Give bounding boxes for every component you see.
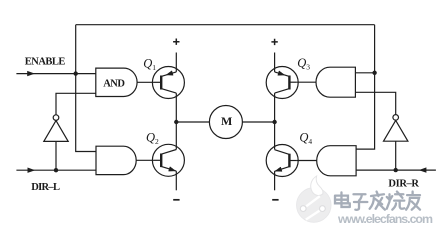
- node DIR-L input wire: [16, 169, 96, 171]
- wire inverter-L output to AND gate lower input: [56, 93, 96, 115]
- transistor Q1 (PNP, base left): [152, 67, 184, 99]
- wire motor left lead: [176, 121, 209, 123]
- and-gate U1 AND (enable/dir) body: [96, 68, 137, 96]
- svg-text:AND: AND: [103, 78, 125, 89]
- junction dot motor left: [174, 120, 178, 124]
- svg-text:Q2: Q2: [146, 131, 159, 146]
- and-gate U3 top-right body (mirrored): [316, 67, 355, 97]
- wire right rail Q3 collector to Q4 collector: [274, 93, 276, 149]
- char 子: [353, 194, 367, 210]
- power - left: [173, 199, 179, 201]
- arrow DIR-L: [28, 168, 36, 173]
- wire Q4 emitter to - supply: [274, 171, 276, 190]
- svg-text:www.elecfans.com: www.elecfans.com: [337, 212, 433, 226]
- watermark text 电子发烧友 (drawn strokes): [335, 192, 421, 211]
- wire Q1 emitter to + supply: [175, 53, 177, 72]
- char 发: [370, 192, 385, 210]
- wire right vertical from top rail down to lower-right AND gate input: [356, 25, 375, 149]
- wire Q2 emitter to - supply: [175, 171, 177, 190]
- wire inverter-L input: [55, 141, 57, 170]
- svg-text:DIR–L: DIR–L: [31, 182, 60, 193]
- and-gate U2 lower-left body: [96, 146, 136, 174]
- transistor Q2 (NPN, base left): [152, 144, 184, 176]
- char 烧: [387, 192, 405, 210]
- svg-text:ENABLE: ENABLE: [25, 57, 66, 68]
- char 友: [406, 192, 420, 210]
- motor M: [209, 106, 242, 139]
- arrow ENABLE: [27, 71, 35, 76]
- wire left vertical from top rail down to lower AND gate input: [76, 25, 97, 152]
- power + left: [173, 39, 179, 45]
- wire bottom-right AND output to Q4 base: [297, 160, 317, 162]
- wire inverter-R output to top-right AND gate lower input: [355, 92, 395, 115]
- inverter U5 DIR-L (triangle up with bubble): [44, 115, 68, 142]
- svg-text:M: M: [221, 114, 232, 128]
- svg-text:Q4: Q4: [299, 131, 312, 146]
- svg-text:DIR–R: DIR–R: [388, 178, 419, 189]
- node DIR-R input wire: [356, 169, 436, 171]
- wire Q3 emitter to + supply: [274, 53, 276, 72]
- wire top supply rail: [76, 24, 375, 26]
- junction dot DIR-R tap: [394, 168, 398, 172]
- inverter U6 DIR-R (triangle up with bubble): [384, 115, 408, 142]
- junction dot motor right: [272, 120, 276, 124]
- wire AND gate output to Q1 base: [137, 81, 154, 83]
- arrow DIR-R: [419, 167, 427, 172]
- and-gate U4 bottom-right body (mirrored): [317, 146, 356, 176]
- svg-text:Q3: Q3: [297, 56, 310, 71]
- char 电: [335, 192, 350, 207]
- node ENABLE input wire: [16, 73, 95, 75]
- wire lower-left AND output to Q2 base: [136, 159, 154, 161]
- watermark logo elecfans circle: [297, 176, 332, 222]
- wire left rail Q1 collector to Q2 collector: [175, 93, 177, 149]
- junction dot DIR-L tap: [54, 168, 58, 172]
- wire top-right AND gate upper input from junction: [355, 72, 374, 74]
- power - right: [272, 199, 278, 201]
- power + right: [271, 39, 277, 45]
- transistor Q3 (PNP, base right, mirrored): [266, 67, 298, 99]
- svg-text:Q1: Q1: [143, 57, 156, 72]
- junction dot ENABLE tap: [74, 71, 78, 75]
- wire top-right AND output to Q3 base: [297, 81, 316, 83]
- transistor Q4 (NPN, base right, mirrored): [266, 145, 298, 177]
- junction dot right rail tap: [372, 71, 376, 75]
- wire motor right lead: [242, 121, 274, 123]
- wire inverter-R input: [395, 141, 397, 170]
